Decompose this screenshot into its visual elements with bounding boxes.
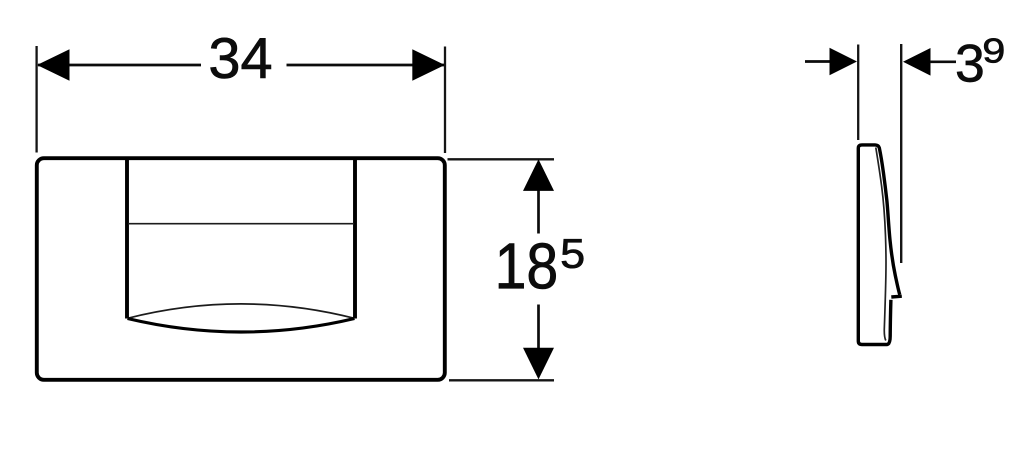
button recess right edge — [353, 159, 357, 319]
depth value 3 — [957, 45, 982, 83]
height value 18 — [499, 243, 556, 289]
height dimension line lower segment — [537, 305, 540, 350]
depth arrow right — [903, 48, 931, 76]
button split line — [128, 223, 354, 225]
height dimension line upper segment — [537, 189, 540, 234]
button lens lower arc — [128, 319, 355, 333]
height extension line bottom — [449, 379, 554, 381]
width arrow left — [37, 49, 70, 80]
depth arrow left — [830, 48, 858, 76]
depth dimension tail right — [930, 60, 956, 63]
depth value superscript 9 — [984, 38, 1003, 63]
depth dimension tail left — [805, 60, 830, 63]
depth extension line right — [900, 44, 902, 263]
width dimension line left segment — [38, 64, 201, 67]
side face crease line — [876, 148, 886, 341]
plate outline (front view) — [37, 158, 445, 380]
depth extension line left — [857, 45, 859, 141]
height arrow down — [523, 348, 554, 380]
height arrow up — [523, 159, 554, 191]
height extension line top — [448, 158, 555, 160]
width arrow right — [412, 49, 445, 80]
width value 34 — [211, 38, 271, 79]
side profile outline — [858, 145, 902, 345]
height value superscript 5 — [562, 239, 583, 268]
button lens upper arc — [128, 304, 355, 318]
button recess left edge — [125, 159, 129, 319]
width extension line left — [35, 46, 37, 153]
width extension line right — [444, 47, 446, 154]
width dimension line right segment — [287, 64, 445, 67]
